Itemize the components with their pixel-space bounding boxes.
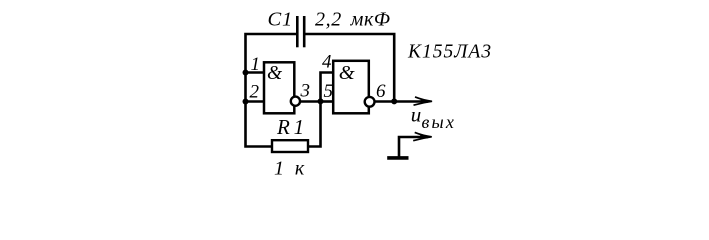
wire: left vertical rail from top wire down to R1 left lead [246,34,297,147]
svg-text:5: 5 [324,81,334,102]
svg-text:&: & [339,62,355,84]
junction dot pin 2 [243,99,249,105]
svg-text:3: 3 [300,81,311,102]
svg-text:C1: C1 [268,9,294,31]
junction dot output node [391,98,397,104]
svg-text:u: u [411,103,422,127]
svg-text:2,2 мкФ: 2,2 мкФ [315,9,391,31]
svg-text:&: & [267,63,283,84]
op-amp U1.2 NAND gate body [333,61,369,114]
svg-text:6: 6 [376,81,386,102]
svg-text:2: 2 [250,82,260,103]
op-amp U1.1 NAND gate body [264,62,294,113]
capacitor C1 plates [297,16,304,47]
inversion bubble output 3 [291,97,300,106]
wire: pin 2 stub [246,100,265,103]
label u_вых [411,103,456,132]
svg-text:1: 1 [251,54,261,75]
svg-text:вых: вых [422,112,457,132]
inversion bubble output 6 [365,97,375,107]
wire: output 6 to output terminal [374,100,428,103]
svg-text:4: 4 [322,52,332,73]
ground arrow head [413,132,432,140]
resistor R1 body [272,140,308,152]
wire: pin 1 stub [246,71,265,74]
svg-text:К155ЛА3: К155ЛА3 [407,41,492,62]
wire: pin 4 jog, mid column down to R1 right lead [308,73,333,147]
svg-text:1 к: 1 к [274,158,305,180]
output arrow head [414,97,433,105]
junction dot mid node [318,98,324,104]
ground terminal wire and arrow [399,137,428,157]
wire: top wire right of C1 down right rail to output node [306,34,395,102]
ground bar [387,156,408,160]
svg-text:R1: R1 [276,115,308,139]
wire: pin 5 stub [321,100,334,103]
junction dot pin 1 [243,70,249,76]
wire: output 3 to mid node [294,100,321,103]
